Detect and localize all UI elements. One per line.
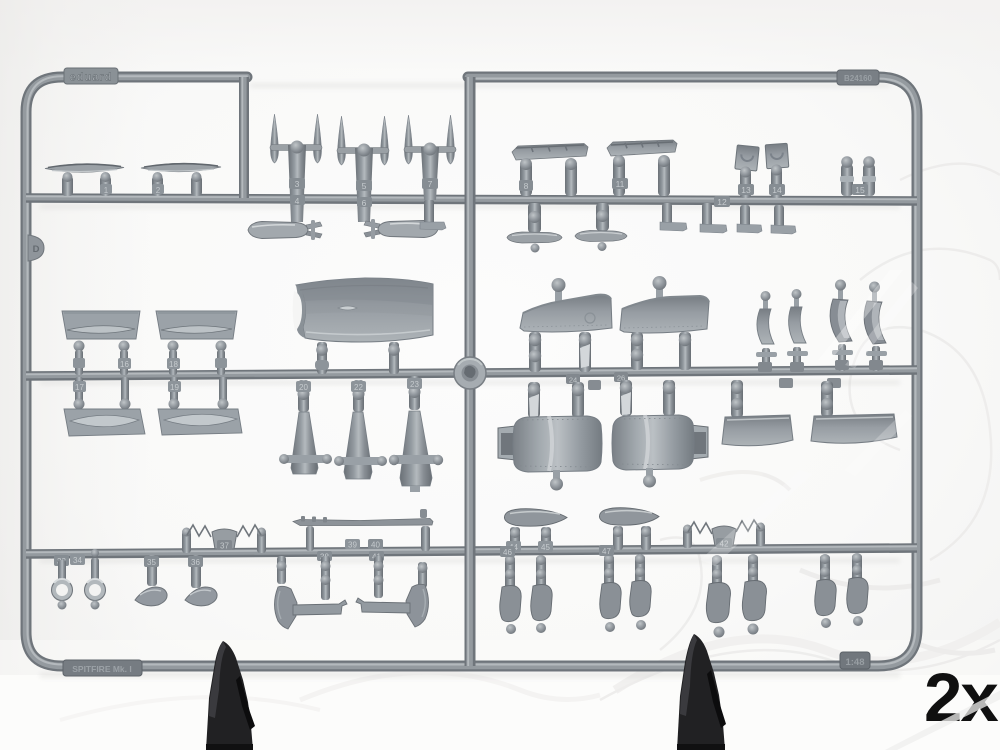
ring 33: [52, 560, 73, 610]
fan 41 stem a: [374, 556, 384, 598]
radiator panel 1: [722, 415, 793, 446]
clip left: [206, 641, 255, 750]
panel 17 stem b: [120, 377, 131, 410]
antenna 42 bracket: [712, 526, 736, 549]
L foot 14: [771, 205, 796, 234]
part 11 stem a: [612, 155, 628, 196]
D tag: [28, 235, 44, 261]
gear door D2 stem: [852, 553, 862, 582]
number plates 24 25 26: [566, 372, 628, 390]
part 15 cylinder a: [840, 156, 854, 196]
radiator panel 2: [811, 414, 897, 443]
gun rod: [293, 509, 433, 551]
part 1 stem a: [62, 172, 73, 196]
svg-text:5: 5: [362, 181, 367, 191]
svg-text:2: 2: [156, 186, 161, 195]
float 10: [575, 231, 627, 252]
panel 16 stem b: [118, 341, 131, 376]
tank 44: [504, 509, 567, 526]
panel 19: [158, 409, 242, 435]
gear door A1: [500, 586, 521, 635]
svg-text:37: 37: [220, 542, 229, 551]
part 8 stem b: [565, 158, 577, 196]
spike cluster 7 right spike: [447, 115, 455, 164]
strip 30 link: [866, 346, 887, 371]
svg-text:1: 1: [104, 186, 109, 195]
part 1 airfoil: [45, 164, 124, 173]
strip 28 link: [787, 347, 808, 371]
eduard label plate: [64, 68, 118, 84]
float 10 link: [596, 203, 609, 231]
L foot 12b: [700, 196, 730, 233]
watermark streaks over parts: [700, 270, 918, 566]
fan 41: [356, 584, 429, 627]
tank 45 stem a: [613, 526, 623, 550]
part 14 plate: [765, 143, 789, 168]
canopy piece: [293, 278, 433, 342]
strip 29: [830, 299, 852, 342]
SPITFIRE label plate: [63, 660, 142, 676]
svg-text:17: 17: [75, 383, 84, 392]
svg-text:34: 34: [73, 556, 82, 565]
svg-text:3: 3: [295, 179, 300, 189]
spike cluster 3-4 right spike: [314, 114, 322, 163]
teardrop 36 stem: [188, 555, 203, 588]
clip right: [677, 634, 726, 750]
svg-text:16: 16: [120, 360, 129, 369]
antenna 37 zigzag wires: [187, 525, 261, 537]
barrel 1 stem b: [572, 382, 584, 418]
cone 22 stem: [351, 380, 366, 412]
strip 29 ball: [835, 280, 846, 303]
svg-text:4: 4: [295, 196, 300, 206]
barrel 1 stem a: [528, 382, 540, 418]
antenna 42 right post: [756, 523, 765, 547]
teardrop 35: [135, 587, 167, 606]
gear door B1: [600, 583, 621, 633]
canopy stem b: [388, 342, 400, 374]
gear door A1 stem: [500, 546, 515, 590]
panel 19 stem a: [168, 377, 181, 410]
strip 30 ball: [869, 282, 880, 305]
gear door D1: [815, 580, 836, 629]
part 8 exhaust: [512, 144, 588, 161]
spike cluster 7 crossbar and column: [404, 143, 456, 201]
bomb 3-4: [248, 220, 322, 240]
tank 45: [599, 508, 659, 525]
svg-text:B24160: B24160: [844, 74, 873, 83]
teardrop 35 stem: [144, 555, 159, 586]
tank 44 stem a: [506, 527, 521, 552]
cone 22: [334, 412, 387, 479]
antenna 37 right post: [257, 528, 266, 554]
part 13 plate: [735, 145, 759, 171]
strip 30: [864, 301, 886, 344]
svg-text:46: 46: [503, 548, 512, 557]
spike cluster 3-4 left spike: [271, 114, 279, 163]
svg-text:35: 35: [147, 558, 156, 567]
cowl B stem a: [631, 332, 643, 370]
part 2 stem b: [191, 172, 202, 196]
number plates 39 40 41 on rail4: [317, 539, 384, 562]
antenna 37 bracket: [212, 529, 237, 551]
svg-text:14: 14: [772, 185, 782, 195]
svg-text:19: 19: [170, 383, 179, 392]
gear door C1: [706, 583, 730, 638]
spike cluster 3-4 crossbar and column: [270, 141, 322, 223]
float 9: [507, 232, 562, 253]
rail 2 horizontal: [26, 196, 917, 201]
vertical center rail x470: [468, 77, 470, 666]
svg-text:18: 18: [169, 360, 178, 369]
part 11 stem b: [658, 155, 670, 196]
1:48 label plate: [840, 652, 870, 669]
L foot 13: [737, 205, 762, 233]
barrel 2 stem b: [663, 380, 675, 416]
gear door D1 stem: [820, 554, 830, 585]
strip 28 ball: [792, 289, 802, 307]
svg-text:SPITFIRE Mk. I: SPITFIRE Mk. I: [72, 664, 132, 674]
svg-text:8: 8: [524, 181, 529, 191]
part 13 stem: [738, 167, 754, 199]
svg-text:eduard: eduard: [70, 72, 113, 84]
bracket foot below 7: [420, 200, 446, 230]
barrel 2 stem a: [620, 380, 632, 416]
strip number plates: [758, 360, 883, 388]
fan 41 stem b: [418, 562, 428, 588]
svg-text:20: 20: [299, 383, 308, 392]
svg-text:1:48: 1:48: [845, 657, 864, 668]
spike cluster 7 left spike: [405, 115, 413, 164]
antenna 42 left post: [683, 525, 692, 549]
gear door D2: [847, 578, 868, 627]
teardrop 36: [185, 587, 217, 606]
background bottom white: [0, 675, 1000, 750]
gear door A2: [531, 585, 552, 634]
gear door B2: [630, 581, 651, 631]
fan 38 stem b: [321, 556, 331, 600]
number plates 33 34 on rail4: [54, 554, 85, 566]
sprue frame outer: [26, 76, 917, 666]
part 15 cylinder b: [852, 156, 876, 196]
cowl top B ball: [653, 276, 667, 300]
L foot 12a: [660, 203, 687, 231]
radiator panel 2 stem: [821, 381, 833, 417]
radiator panel 1 stem: [731, 380, 743, 418]
barrel 2 scoop: [682, 424, 708, 460]
part 1 stem b: [100, 172, 112, 196]
part 2 airfoil: [141, 163, 221, 172]
bomb 5-6: [364, 219, 438, 239]
cone 20: [279, 412, 332, 474]
strip 27 ball: [761, 291, 771, 309]
svg-text:45: 45: [541, 543, 550, 552]
svg-text:11: 11: [616, 179, 625, 189]
tank 44 stem b: [538, 527, 553, 552]
svg-text:36: 36: [191, 558, 200, 567]
cone 23 stem: [407, 376, 422, 410]
spike cluster 5-6 left spike: [338, 116, 346, 165]
cowl top A: [520, 295, 612, 332]
svg-text:39: 39: [348, 541, 357, 550]
cowl A stem a: [529, 332, 541, 372]
float 9 link: [528, 203, 541, 233]
gear door C2: [742, 581, 766, 635]
panel 18 stem b: [215, 341, 227, 376]
tank 45 stem b: [641, 526, 651, 550]
part 8 stem a: [519, 158, 533, 196]
svg-text:23: 23: [410, 380, 419, 389]
fan 38: [275, 586, 348, 629]
svg-text:12: 12: [717, 197, 727, 207]
cone 20 stem: [296, 380, 311, 412]
panel 17: [64, 409, 145, 436]
cowl B stem b: [679, 332, 691, 370]
rail 4 horizontal: [26, 546, 917, 554]
barrel 2: [612, 415, 694, 470]
panel 18: [156, 311, 237, 339]
antenna 37 left post: [182, 528, 191, 554]
cowl top A ball: [552, 278, 566, 302]
svg-text:6: 6: [362, 198, 367, 208]
watermark streak over 2x: [885, 688, 1000, 750]
panel 18 stem a: [167, 341, 180, 376]
svg-text:47: 47: [602, 547, 611, 556]
vertical connector x244: [242, 77, 244, 198]
strip 27: [757, 309, 774, 344]
barrel 1 bottom ball: [550, 470, 563, 491]
gear door A2 stem: [536, 555, 546, 588]
gear door B1 stem: [599, 545, 614, 587]
svg-text:22: 22: [354, 383, 363, 392]
gear door C2 stem: [748, 554, 758, 585]
barrel 1: [513, 416, 602, 472]
svg-text:D: D: [33, 244, 40, 255]
barrel 1 scoop: [498, 425, 524, 461]
background top band: [0, 0, 1000, 70]
antenna 42 zigzag wires: [688, 520, 760, 534]
rail shadows: [40, 83, 900, 678]
canopy stem a: [315, 342, 329, 374]
panel 19 stem b: [218, 377, 229, 410]
gear door C1 stem: [712, 555, 722, 588]
spike cluster 5-6 right spike: [381, 116, 389, 165]
svg-text:7: 7: [428, 179, 433, 189]
strip 28: [789, 307, 806, 343]
panel 16: [62, 311, 140, 339]
spike cluster 5-6 crossbar and column: [337, 144, 389, 223]
background left vignette: [0, 0, 150, 750]
B24160 label plate: [837, 70, 879, 85]
svg-text:13: 13: [741, 185, 751, 195]
cowl A stem b: [579, 332, 591, 372]
rail 3 horizontal: [26, 368, 917, 376]
watermark swirls: [60, 164, 1000, 720]
gear door B2 stem: [635, 554, 645, 585]
strip 27 link: [756, 348, 777, 372]
svg-text:15: 15: [855, 185, 865, 195]
junction disk: [454, 357, 486, 389]
cone 23: [389, 411, 443, 492]
part 2 stem a: [152, 172, 164, 196]
cowl top B: [620, 296, 709, 333]
part 14 stem: [769, 165, 785, 199]
part 11 exhaust: [607, 140, 677, 156]
strip 29 link: [832, 344, 853, 371]
barrel 2 bottom ball: [643, 468, 656, 488]
fan 38 stem a: [277, 556, 287, 584]
panel 17 stem a: [73, 377, 86, 410]
ring 34: [85, 549, 106, 610]
svg-text:40: 40: [371, 541, 380, 550]
panel 16 stem a: [73, 341, 85, 376]
